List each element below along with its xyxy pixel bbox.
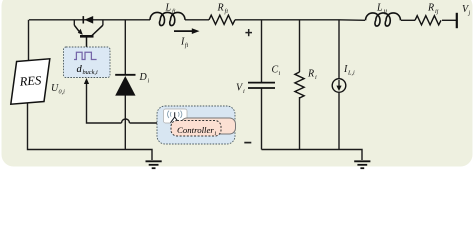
svg-text:fi: fi: [225, 8, 229, 15]
svg-text:ij: ij: [384, 8, 388, 15]
svg-text:R: R: [307, 69, 314, 80]
svg-text:fi: fi: [185, 42, 189, 49]
svg-text:i: i: [279, 70, 281, 77]
svg-text:0,i: 0,i: [59, 89, 66, 96]
svg-text:fi: fi: [172, 8, 176, 15]
svg-text:D: D: [139, 72, 148, 83]
svg-text:L: L: [165, 3, 172, 14]
svg-text:j: j: [468, 10, 471, 17]
svg-text:C: C: [272, 65, 279, 76]
svg-text:L: L: [376, 3, 383, 14]
svg-text:i: i: [148, 78, 150, 85]
svg-text:ij: ij: [435, 8, 439, 15]
svg-text:buck,i: buck,i: [83, 69, 98, 76]
svg-text:Controller: Controller: [177, 125, 214, 135]
svg-text:i: i: [315, 74, 317, 81]
svg-text:RES: RES: [18, 73, 42, 89]
svg-text:i: i: [243, 88, 245, 95]
svg-text:R: R: [427, 3, 434, 14]
svg-text:L,i: L,i: [347, 70, 355, 77]
svg-text:R: R: [217, 3, 224, 14]
